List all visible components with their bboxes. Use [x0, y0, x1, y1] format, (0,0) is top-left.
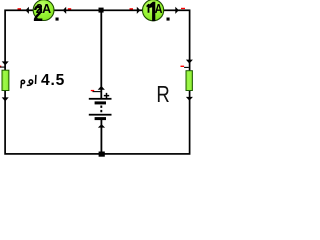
- arrow right-pointing before right ammeter: [137, 7, 141, 14]
- red dash + leader right resistor: [181, 66, 185, 67]
- battery B1 plates: [89, 98, 112, 100]
- resistor R1 4.5 ohm (left, green): [2, 70, 9, 90]
- waw tail: [27, 83, 33, 85]
- battery dotted cells line: [100, 106, 102, 114]
- arrow left-pointing after left ammeter: [63, 7, 66, 14]
- meem tail: [20, 83, 23, 88]
- wire middle branch upper segment: [100, 10, 102, 98]
- wire outer rectangle loop: [5, 10, 190, 154]
- ammeter U2 big label 1: [149, 2, 155, 21]
- svg-text:4.5: 4.5: [41, 72, 65, 89]
- battery plus sign: [104, 93, 109, 98]
- resistor R (right, green): [186, 71, 192, 91]
- ammeter U2 (1A) green circle: [143, 0, 164, 21]
- ammeter U1 big label 2: [33, 2, 43, 26]
- arrow down on right wire above resistor: [186, 60, 193, 64]
- svg-text:R: R: [156, 81, 169, 107]
- red dash + leader battery: [91, 90, 94, 91]
- svg-text:A: A: [155, 2, 163, 16]
- ammeter U1 (2A) green circle: [33, 0, 54, 21]
- alef: [35, 75, 37, 84]
- handle square left ammeter: [56, 18, 59, 21]
- arrow down on left wire above resistor: [2, 61, 9, 65]
- arrow down on left wire below resistor: [2, 97, 9, 101]
- arrow up on battery bottom wire: [98, 124, 105, 128]
- arrow down on right wire below resistor: [186, 97, 193, 101]
- red dash top-left outer: [18, 8, 22, 9]
- ammeter U2 reading 1A: [147, 4, 150, 13]
- svg-text:2: 2: [33, 2, 43, 26]
- meem head: [21, 80, 24, 83]
- waw head: [29, 80, 33, 84]
- red dash before right ammeter: [130, 8, 134, 9]
- red dash + leader left resistor: [0, 66, 1, 67]
- label ohm (Arabic aum) drawn as paths: [21, 75, 36, 88]
- node junction square top: [99, 8, 104, 13]
- wire middle branch lower segment: [100, 120, 102, 154]
- arrow left-pointing before left ammeter: [25, 7, 29, 14]
- handle square right ammeter: [167, 18, 170, 21]
- node junction square bottom: [99, 152, 105, 157]
- arrow up on battery top wire: [98, 86, 105, 90]
- red dash after left ammeter: [68, 8, 71, 9]
- red dash top-right outer: [181, 8, 185, 9]
- arrow right-pointing after right ammeter: [175, 7, 179, 14]
